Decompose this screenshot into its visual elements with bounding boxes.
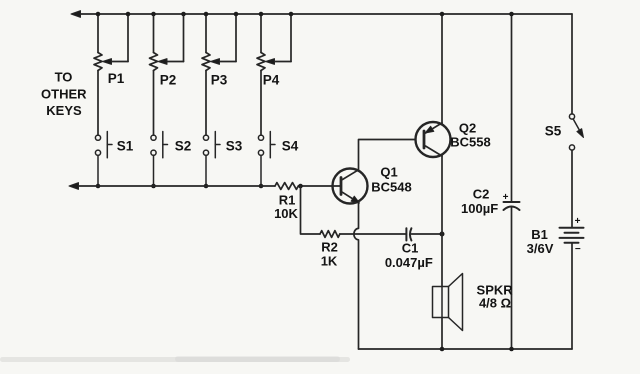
node dot top rail P1 — [96, 12, 101, 17]
svg-text:P2: P2 — [160, 73, 177, 88]
svg-text:−: − — [575, 244, 581, 255]
svg-text:4/8 Ω: 4/8 Ω — [479, 295, 511, 310]
svg-text:C2: C2 — [473, 186, 490, 201]
node dot S4 bottom — [259, 184, 264, 189]
wire bottom rail — [359, 348, 573, 350]
svg-text:3/6V: 3/6V — [527, 241, 554, 256]
svg-text:KEYS: KEYS — [46, 103, 82, 118]
transistor Q1 — [332, 169, 368, 204]
transistor Q2 — [416, 122, 451, 157]
svg-text:P3: P3 — [211, 73, 228, 88]
node dot top rail P3 — [204, 12, 209, 17]
node arrow keys rail — [69, 183, 79, 190]
wire keys bottom rail — [72, 185, 275, 187]
node S5 arrowhead — [577, 129, 584, 138]
node dot S3 bottom — [204, 184, 209, 189]
svg-text:B1: B1 — [531, 227, 548, 242]
wire top rail to Q2 emitter — [441, 14, 443, 124]
node dot top rail P1 wiper — [126, 12, 131, 17]
wire top supply rail — [74, 13, 572, 15]
svg-text:Q2: Q2 — [459, 120, 476, 135]
node label TO OTHER KEYS — [41, 69, 87, 118]
wire S5 to battery — [571, 150, 573, 228]
svg-text:S3: S3 — [226, 139, 243, 154]
switch S1 — [95, 132, 112, 187]
wire Q1 collector to Q2 base — [359, 140, 415, 170]
svg-text:100µF: 100µF — [461, 201, 498, 216]
capacitor C1 — [406, 228, 411, 240]
wire C1 to Q2 collector line — [411, 233, 442, 235]
svg-text:0.047µF: 0.047µF — [385, 255, 433, 270]
svg-text:S5: S5 — [545, 123, 562, 138]
svg-text:10K: 10K — [274, 206, 298, 221]
node dot S1 bottom — [96, 184, 101, 189]
node dot bottom rail speaker — [440, 347, 445, 352]
wire battery to bottom rail — [571, 243, 573, 349]
potentiometer P3 — [202, 14, 236, 135]
svg-text:+: + — [575, 216, 581, 227]
wire speaker to bottom rail — [441, 318, 443, 350]
wire Q1 emitter down with hop over R2-C1 wire — [354, 202, 359, 349]
node dot bottom rail C2 — [509, 347, 514, 352]
node dot top rail C2 — [509, 12, 514, 17]
switch S5 — [569, 114, 581, 150]
resistor R1 — [275, 183, 298, 190]
switch S2 — [151, 132, 168, 187]
svg-text:P4: P4 — [263, 73, 280, 88]
node dot top rail P4 wiper — [289, 12, 294, 17]
svg-text:BC548: BC548 — [371, 179, 411, 194]
wire C1 node down to speaker — [441, 234, 443, 287]
node dot top rail P2 wiper — [181, 12, 186, 17]
svg-text:1K: 1K — [321, 253, 338, 268]
node dot C1 junction — [440, 232, 445, 237]
node dot top rail P4 — [259, 12, 264, 17]
wire R1 to Q1 base — [298, 185, 331, 187]
wire top rail right corner down to S5 — [571, 14, 573, 114]
svg-text:S4: S4 — [282, 139, 299, 154]
battery B1 — [560, 228, 584, 243]
wire Q2 collector down to C1 node — [441, 156, 443, 235]
svg-text:TO: TO — [55, 69, 73, 84]
svg-text:+: + — [503, 192, 509, 203]
svg-text:P1: P1 — [108, 71, 125, 86]
svg-text:S1: S1 — [117, 139, 134, 154]
switch S3 — [203, 132, 220, 187]
wire C2 to bottom rail — [511, 207, 513, 349]
resistor R2 — [320, 231, 340, 238]
svg-text:Q1: Q1 — [380, 165, 397, 180]
node dot top rail P3 wiper — [234, 12, 239, 17]
svg-text:BC558: BC558 — [450, 134, 490, 149]
wire R2 branch down — [301, 186, 321, 234]
svg-text:C1: C1 — [402, 240, 419, 255]
potentiometer P4 — [257, 14, 291, 135]
node dot top rail P2 — [151, 12, 156, 17]
node dot top rail Q2 — [440, 12, 445, 17]
svg-text:OTHER: OTHER — [41, 86, 87, 101]
capacitor C2 — [511, 14, 513, 202]
potentiometer P2 — [150, 14, 184, 135]
svg-text:S2: S2 — [175, 139, 192, 154]
node dot R1/R2 junction — [298, 184, 303, 189]
switch S4 — [258, 132, 275, 187]
wire R2 to C1 — [340, 233, 407, 235]
node dot S2 bottom — [151, 184, 156, 189]
node arrow top-left — [71, 11, 81, 18]
svg-text:R2: R2 — [321, 239, 338, 254]
speaker SPKR — [433, 274, 463, 331]
potentiometer P1 — [94, 14, 128, 135]
scan smudge bottom — [0, 356, 350, 362]
